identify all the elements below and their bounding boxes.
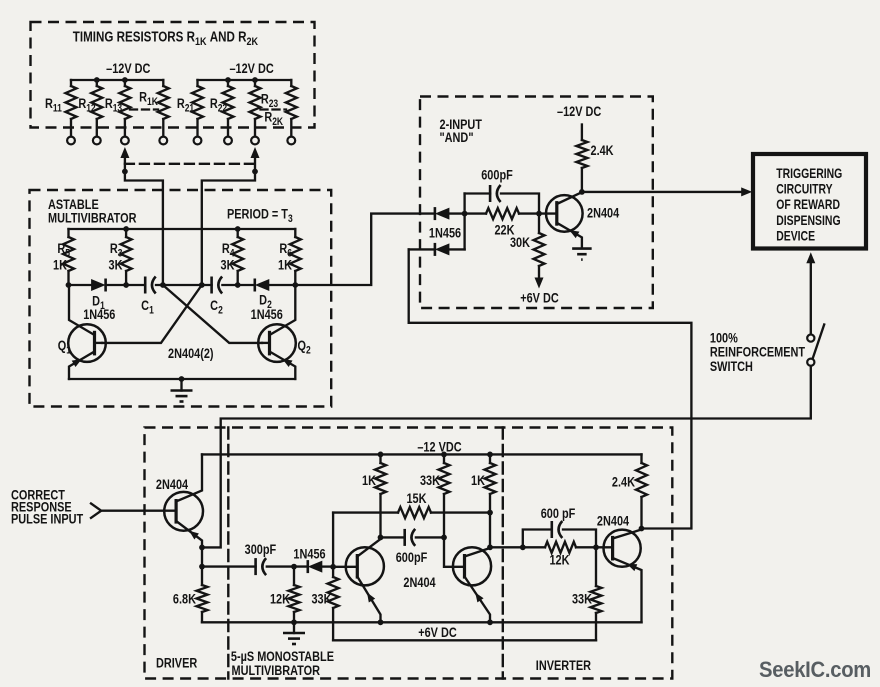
gang link R13-R1K (dashed) [130,108,158,110]
AND feedback capacitor 600pF [465,185,539,214]
svg-text:SeekIC.com: SeekIC.com [759,657,871,682]
wire astable emitter rail [69,378,295,380]
resistor R6 [290,229,301,285]
driver emitter lead [176,521,202,547]
junction R4 top [235,226,241,232]
label R23 [261,91,279,110]
label "AND" [440,130,474,146]
diode D1 [91,279,106,292]
svg-text:2N404: 2N404 [403,575,435,591]
Q1 emitter lead [69,352,95,380]
svg-text:1K: 1K [278,257,292,273]
svg-text:"AND": "AND" [440,130,474,146]
driver collector lead [176,454,202,501]
Qm1 base lead [333,566,357,568]
wire astable output to AND input [295,214,435,285]
junction inverter cap tap [520,544,526,550]
label +6V DC (AND) [520,290,559,306]
junction 1K-a rail [378,452,384,458]
junction right tap [252,169,258,175]
label REINFORCEMENT [710,344,805,360]
label R5 value 1K [53,257,67,273]
capacitor 600pF (inverter) [523,521,596,547]
AND transistor base lead [539,212,557,214]
wire switch to driver emitter node [202,366,811,548]
wire right -12V rail [198,79,292,81]
junction 600pF right / Qm2 base feed [441,535,447,541]
wire astable top rail [69,228,296,230]
resistor R12 with output terminal [91,80,102,144]
junction R6 bottom [292,282,298,288]
transistor Q1 [68,324,106,362]
wire D1 to C1 [106,284,146,286]
junction R23 rail [252,77,258,83]
label C1 [141,298,154,317]
arrow to +6V DC [535,278,544,289]
resistor 33K (monostable base bias) [439,454,465,566]
label R21 [177,96,195,115]
driver/monostable/inverter enclosure (dashed box) [145,428,673,679]
resistor R5 [63,229,74,285]
svg-text:1N456: 1N456 [83,307,115,323]
label 33K (Qm1 base) [311,591,331,607]
resistor R11 with output terminal [66,80,77,144]
label R4 value 3K [221,257,235,273]
label R4 [222,241,235,260]
label 22K [494,222,514,238]
AND transistor collector lead [557,192,582,204]
resistor 30K [534,214,545,278]
label 33K (inverter) [572,591,592,607]
wire diode2 to summing node [449,194,464,250]
wire cross-couple C2 node to Q1 base [102,285,202,343]
switch blade [813,325,825,359]
wire left tap to astable R3 node [125,172,163,286]
label R2K [264,109,283,128]
svg-text:DRIVER: DRIVER [156,655,197,671]
wire middle rail left [69,284,92,286]
Qm1 emitter lead [357,577,380,623]
wire C2 to D2 [222,284,254,286]
label D1 type 1N456 [83,307,115,323]
Qm2 collector lead [465,548,491,557]
Qm2 emitter lead [465,577,491,623]
svg-text:300pF: 300pF [245,542,277,558]
junction 33K-a rail [441,452,447,458]
Qm1 collector lead [357,539,380,557]
junction 1K-b rail [487,452,493,458]
label R5 [57,241,70,260]
switch upper contact [807,335,814,342]
transistor Q2 [258,324,296,362]
junction emitter rail center [179,376,185,382]
junction driver emitter node [199,545,205,551]
svg-text:DEVICE: DEVICE [776,228,815,244]
label DEVICE [776,228,815,244]
svg-text:OF REWARD: OF REWARD [776,197,840,213]
resistor 2.4K (inverter) [636,454,647,528]
resistor 1K (monostable left) [375,454,386,537]
svg-text:2N404: 2N404 [156,477,188,493]
capacitor C2 [212,277,223,294]
label R6 [279,241,292,260]
junction Qm1 emitter rail [378,619,384,625]
label 100% [710,330,738,346]
wire right tap to astable R4 node [202,172,255,286]
label PERIOD = T3 [227,206,293,225]
wire left -12V rail [71,79,163,81]
resistor R22 with output terminal [223,80,234,144]
label Q1 [58,338,72,357]
resistor R3 [121,229,132,285]
svg-text:1N456: 1N456 [251,307,283,323]
svg-text:33K: 33K [420,473,440,489]
transistor 2N404 (inverter) [604,530,641,567]
label 2N404 (driver) [156,477,188,493]
resistor R13 with output terminal [119,80,130,144]
svg-text:15K: 15K [406,491,426,507]
wire input to driver base [101,510,176,512]
label +6V DC (bottom rail) [418,625,457,641]
svg-text:+6V DC: +6V DC [520,290,559,306]
svg-text:1K: 1K [362,473,376,489]
capacitor 300pF [202,558,294,575]
label 300pF [245,542,277,558]
label 12K (inverter) [549,552,569,568]
label 1K (monostable left) [362,473,376,489]
resistor 12K (inverter) [545,542,611,553]
label SWITCH [710,359,753,375]
label 1N456 (monostable) [293,546,325,562]
junction Qm1 collector node [378,535,384,541]
label R11 [45,96,62,115]
label C2 [210,298,223,317]
junction AND base node [536,211,542,217]
junction inverter output node [639,526,645,532]
label 2N404(2) [168,346,214,362]
junction R22 rail [225,77,231,83]
transistor 2N404 (driver) [164,492,203,531]
label -12V DC (left bank supply) [106,61,150,77]
Q1 base lead [95,342,103,344]
label MULTIVIBRATOR [48,210,137,226]
label -12V DC (right bank supply) [229,61,273,77]
label MULTIVIBRATOR (monostable) [232,663,321,679]
label 1N456 (AND diodes) [429,225,461,241]
svg-text:–12V DC: –12V DC [106,61,150,77]
label CIRCUITRY [776,181,832,197]
junction node B (C2/cross/timing tap) [199,282,205,288]
label 33K (monostable base bias) [420,473,440,489]
AND supply feed and resistor 2.4K [576,125,587,192]
svg-text:33K: 33K [311,591,331,607]
timing resistor bank enclosure (dashed box) [31,22,315,128]
AND emitter ground [572,249,592,260]
label DRIVER [156,655,197,671]
svg-text:+6V DC: +6V DC [418,625,457,641]
capacitor 600pF (monostable) [381,529,445,546]
label INVERTER [536,658,591,674]
label DISPENSING [776,213,840,229]
svg-text:12K: 12K [549,552,569,568]
svg-text:2N404: 2N404 [597,513,629,529]
svg-text:2.4K: 2.4K [591,143,614,159]
label RESPONSE [11,499,72,515]
resistor 1K (monostable right) [485,454,496,512]
wire driver emitter to 300pF node [201,547,203,566]
svg-text:33K: 33K [572,591,592,607]
junction Qm2 emitter rail [487,619,493,625]
wire AND input2 to inverter output node [409,249,692,528]
label 1K (monostable right) [471,473,485,489]
label 600pF (monostable) [396,550,428,566]
svg-text:6.8K: 6.8K [173,591,196,607]
resistor R2K with output terminal [286,80,297,144]
input chevron [91,504,101,518]
diode CR2 1N456 (AND input 2) [409,243,450,256]
svg-text:3K: 3K [221,257,235,273]
label 2.4K (AND) [591,143,614,159]
svg-text:2N404(2): 2N404(2) [168,346,214,362]
junction 15K right node [487,510,493,516]
label 600 pF (inverter) [541,506,576,522]
svg-text:–12 VDC: –12 VDC [417,439,461,455]
junction inverter base node [593,544,599,550]
separator driver/monostable (dashed) [227,428,229,679]
label 2-INPUT [440,117,483,133]
svg-text:600pF: 600pF [396,550,428,566]
label 2N404 (inverter) [597,513,629,529]
label R3 [110,241,123,260]
label -12V DC (AND supply) [557,104,601,120]
label D2 [259,292,272,311]
label 12K (monostable) [270,591,290,607]
label TIMING RESISTORS R1K AND R2K [73,28,259,48]
resistor R1K with output terminal [158,80,169,144]
wire 15K left to Qm1 base [332,513,334,567]
svg-text:600 pF: 600 pF [541,506,576,522]
Q2 base lead [262,342,270,344]
svg-text:2.4K: 2.4K [612,474,635,490]
junction R4 bottom [235,282,241,288]
label 15K [406,491,426,507]
svg-text:1K: 1K [471,473,485,489]
svg-text:SWITCH: SWITCH [710,359,753,375]
diode CR1 1N456 (AND input 1) [435,207,450,220]
svg-text:–12V DC: –12V DC [557,104,601,120]
svg-text:2N404: 2N404 [587,205,619,221]
wire Qm2 collector to inverter base [490,546,545,548]
inverter emitter lead [613,558,642,622]
arrowhead into trigger box [741,187,752,196]
svg-text:INVERTER: INVERTER [536,658,591,674]
Q2 collector lead [270,285,296,335]
resistor 33K (Qm1 base to +6V) [328,567,339,641]
resistor 33K (inverter) [591,547,602,640]
resistor 15K [333,507,490,518]
svg-text:MULTIVIBRATOR: MULTIVIBRATOR [232,663,321,679]
label R13 [105,96,123,115]
junction node A (C1/cross/timing tap) [160,282,166,288]
label 6.8K [173,591,196,607]
resistor R4 [232,229,243,285]
transistor Qm1 (monostable left) [346,547,384,585]
transistor 2N404 (AND) [546,195,583,232]
wire +6VDC rail [333,639,596,641]
junction 12K top node [291,564,297,570]
svg-text:3K: 3K [109,257,123,273]
label R3 value 3K [109,257,123,273]
2-input AND enclosure (dashed box) [420,97,653,309]
label OF REWARD [776,197,840,213]
junction 300pF node [199,564,205,570]
label TRIGGERING [776,166,842,182]
svg-text:DISPENSING: DISPENSING [776,213,840,229]
junction R5 bottom [66,282,72,288]
svg-text:REINFORCEMENT: REINFORCEMENT [710,344,805,360]
label ASTABLE [48,197,99,213]
svg-text:600pF: 600pF [481,167,513,183]
wire AND output to trigger box [582,191,747,193]
junction AND output node [579,189,585,195]
label R22 [210,96,228,115]
Q1 collector lead [69,285,95,335]
junction R3 top [123,226,129,232]
astable multivibrator enclosure (dashed box) [30,190,332,407]
label 2N404 (AND) [587,205,619,221]
label R1K [139,89,158,108]
resistor 12K (monostable) [289,567,300,623]
svg-text:CIRCUITRY: CIRCUITRY [776,181,832,197]
svg-text:1K: 1K [53,257,67,273]
gang dashed link between taps [125,163,255,165]
junction R12 rail [94,77,100,83]
capacitor C1 [145,277,156,294]
separator monostable/inverter (dashed) [502,428,504,679]
label R6 value 1K [278,257,292,273]
resistor R21 with output terminal [192,80,203,144]
label R12 [78,96,96,115]
label PULSE INPUT [11,511,83,527]
junction R13 rail [122,77,128,83]
wire diode1 to summing node [449,212,464,214]
switch lower contact [807,359,814,366]
label 30K [510,235,530,251]
diode 1N456 (monostable input) [294,560,333,573]
junction R3 bottom [123,282,129,288]
watermark SeekIC.com [759,657,871,682]
resistor R23 with output terminal [250,80,261,144]
wire 15K right node to collector node [489,513,491,548]
wire ground rail (bottom) [202,621,642,623]
astable ground [171,379,193,402]
resistor 22K [465,208,539,219]
junction Qm1 base node [330,564,336,570]
svg-text:MULTIVIBRATOR: MULTIVIBRATOR [48,210,137,226]
label D1 [92,293,105,312]
wire D2 to R6 node [269,284,295,286]
label 2N404 (monostable) [403,575,435,591]
junction Qm2 collector node [487,544,493,550]
label 600pF (AND) [481,167,513,183]
svg-text:1N456: 1N456 [429,225,461,241]
wire -12VDC rail (bottom) [202,453,642,455]
resistor 6.8K [197,567,208,623]
label 2.4K (inverter) [612,474,635,490]
svg-text:1N456: 1N456 [293,546,325,562]
svg-text:–12V DC: –12V DC [229,61,273,77]
junction AND summing node [462,211,468,217]
label -12VDC (bottom rail) [417,439,461,455]
junction left tap [122,169,128,175]
selector arrow to R23 tap [251,147,260,172]
Q2 emitter lead [270,352,296,380]
svg-text:12K: 12K [270,591,290,607]
selector arrow to R13 tap [120,147,129,172]
svg-text:30K: 30K [510,235,530,251]
AND transistor emitter lead [557,223,582,248]
triggering circuitry box (solid) [753,154,866,249]
inverter collector lead [613,530,642,539]
wire cross-couple C1 node to Q2 base [163,285,262,343]
diode D2 [255,279,269,292]
gang link R23-R2K (dashed) [261,108,287,110]
svg-text:PULSE INPUT: PULSE INPUT [11,511,83,527]
junction 12K bottom / ground [291,619,297,625]
monostable ground [283,622,305,644]
arrow into trigger box bottom [806,252,815,334]
wire C1 to C2 [156,284,212,286]
label CORRECT [11,487,65,503]
svg-text:TRIGGERING: TRIGGERING [776,166,842,182]
label 5-uS MONOSTABLE [231,649,334,665]
label Q2 [298,338,312,357]
label D2 type 1N456 [251,307,283,323]
transistor Qm2 (monostable right) [453,547,491,585]
